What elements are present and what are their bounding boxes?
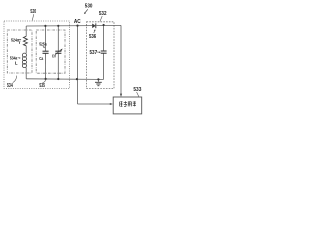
svg-text:AC: AC [74,19,81,25]
svg-text:Cv: Cv [52,54,56,59]
outer dashed box 520 (resonant circuit) [4,21,70,89]
label 535 (cap box) + leader [39,80,45,90]
char 4 [133,101,136,103]
char 1 [118,102,120,107]
junction dot after diode [103,24,105,26]
wire: cap Ca branch bottom [45,53,47,79]
svg-text:533: 533 [133,87,141,93]
wire: smoothing cap vertical top [103,25,105,51]
junction dot at Ca top [44,25,46,27]
svg-text:537: 537 [90,50,98,56]
junction dot bottom rail at AC line [76,78,78,80]
svg-text:535: 535 [39,83,45,89]
smoothing capacitor 537 plates [101,51,107,53]
label 525a + arrow to Ca [39,41,47,48]
wire: cap Cv branch bottom [57,53,59,79]
wire: below coil to bottom rail [25,68,27,79]
label 534a + arrow to coil [10,56,21,61]
wire: top rail [26,25,92,27]
arrowhead into load box left [110,103,113,105]
arrowhead into load box top [120,94,122,97]
load box 533 [113,97,142,114]
junction dot at ground node [97,78,99,80]
inductor L coil loops [22,53,26,68]
wire: between resistor and coil [25,46,27,54]
inner dash-dot box 534 (coil branch: r + L) [7,30,32,73]
label 533 + leader [133,87,141,97]
wire: diode cathode to right elbow [96,24,121,26]
svg-text:532: 532 [99,11,107,17]
wire: cap Cv branch top [57,26,59,51]
svg-text:520: 520 [30,9,36,15]
wire: AC vertical line down to load feed [77,26,79,104]
svg-text:Ca: Ca [39,56,43,61]
wire: horizontal feed into load box left side [78,103,112,105]
capacitor Cv plates (variable) [55,51,61,53]
svg-text:536: 536 [89,34,96,40]
char 3 [127,102,129,107]
resistor r zigzag [23,36,27,46]
label 536 + arrow to diode [89,29,96,40]
label 537 + arrow to cap [90,50,101,56]
variable capacitor arrow through Cv [55,49,62,55]
diode 536 [92,24,96,29]
label 532 + leader [99,11,107,22]
wire: elbow down to load box arrow [120,25,122,93]
ground symbol [95,82,102,85]
junction dot at Ca bottom [45,78,47,80]
capacitor Ca plates [43,51,49,53]
junction dot at Cv bottom [57,78,59,80]
wire: bottom rail [26,78,98,81]
label 530 + arrow [84,3,93,14]
label 534 (coil box) + leader [7,76,17,89]
label 520 + leader [30,9,36,20]
svg-text:L: L [15,61,18,66]
wire: cap Ca branch top [44,26,46,51]
wire: smoothing cap bottom down and elbow to ground node [103,53,105,79]
inner dash-dot box 535 (capacitor branch: Ca + Cv) [36,30,65,73]
svg-text:534: 534 [7,83,13,89]
wire: ground elbow from cap bottom [98,79,103,82]
svg-text:525a: 525a [39,41,47,46]
junction dot at Cv top [57,25,59,27]
rectifier dashed box 532 [87,22,115,89]
svg-text:530: 530 [85,3,93,9]
char 2 [124,101,127,103]
wire: branch r+L vertical top [25,26,27,36]
junction dot at AC node [76,25,78,27]
label 524a + arrow to resistor [11,37,21,42]
load box text (CJK glyph blocks) [119,101,136,106]
